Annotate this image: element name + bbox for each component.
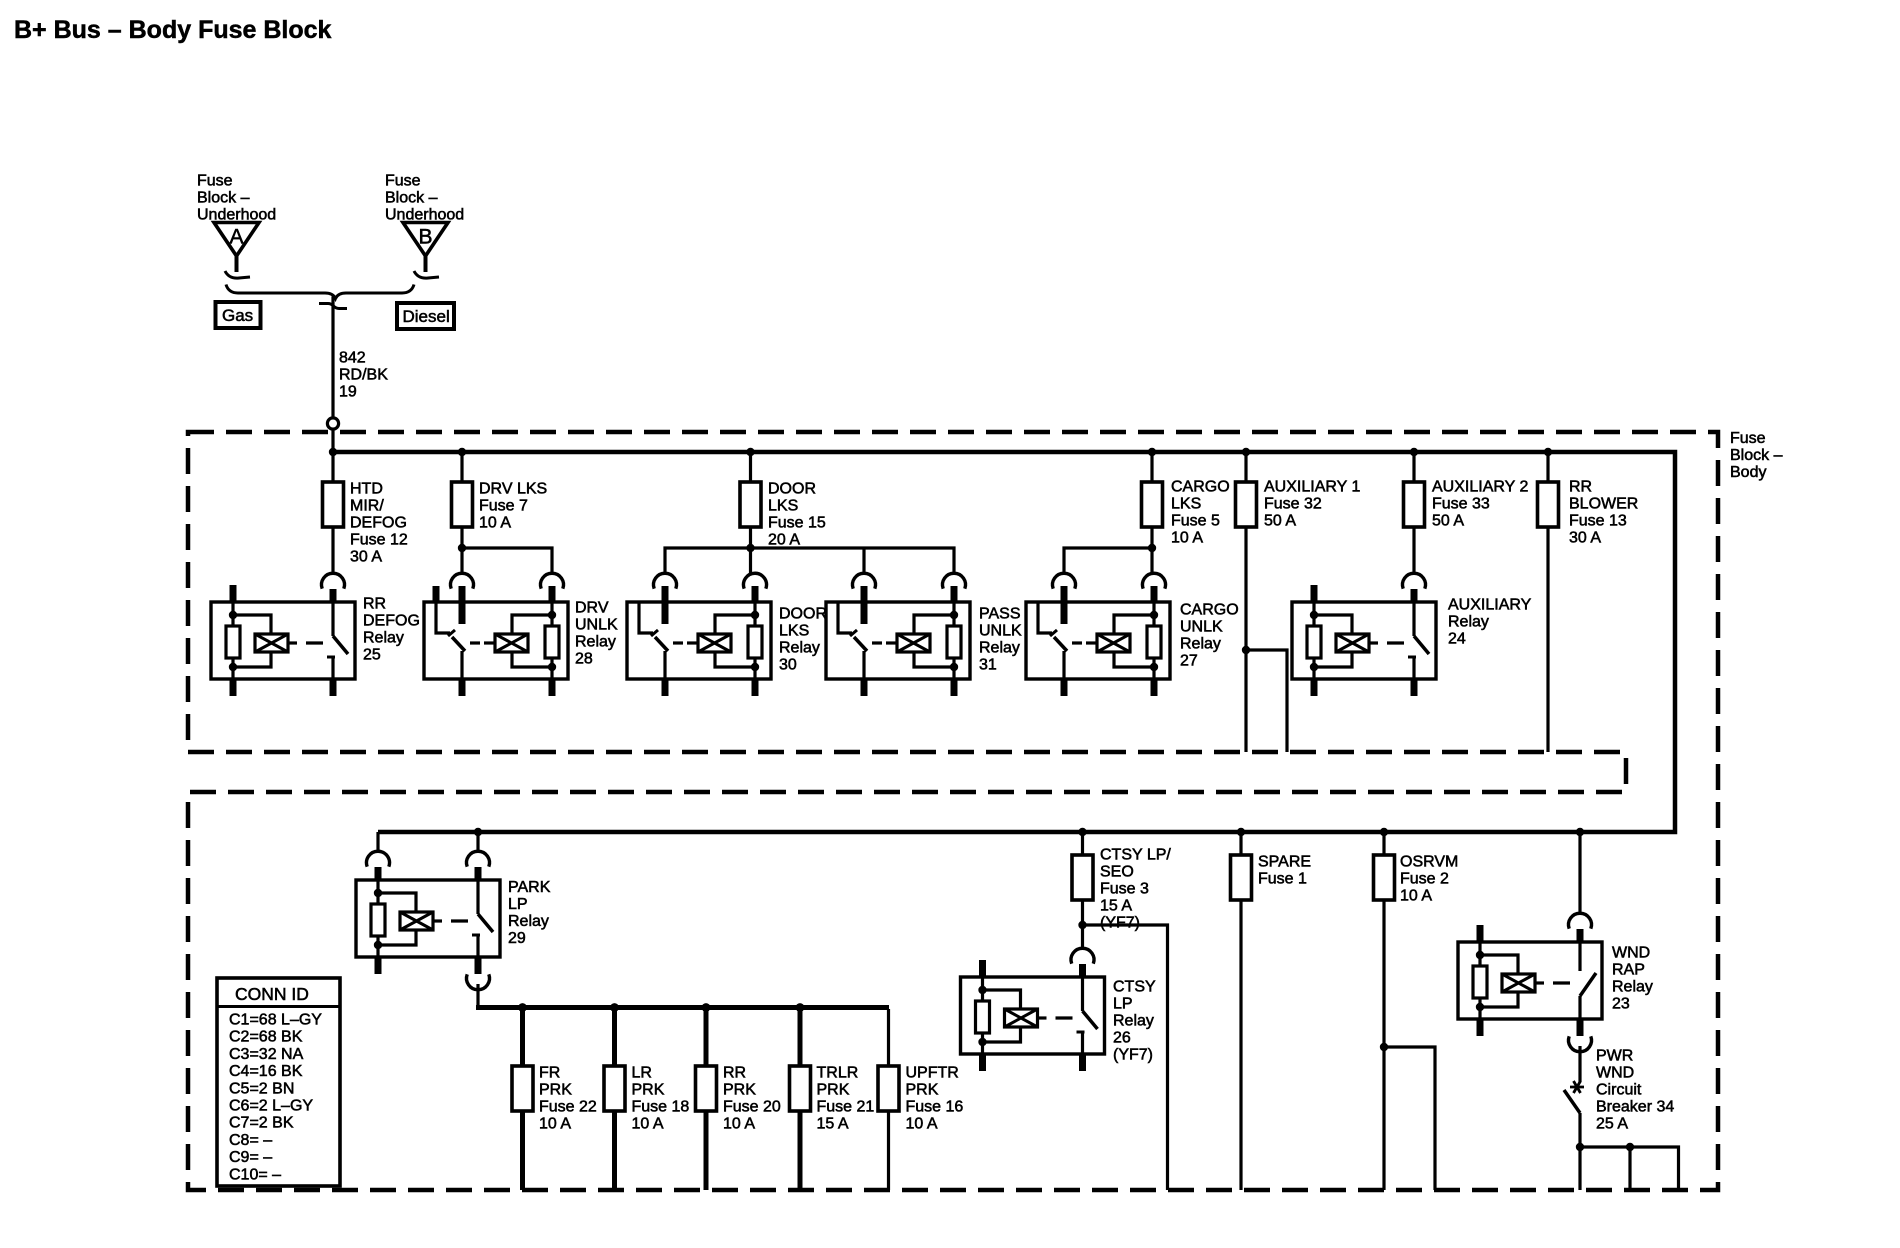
- wire: fuse 13 down to lower block: [1546, 527, 1549, 752]
- bus junction nodes (upper): [329, 448, 1552, 456]
- relay 29 PARK LP box: [356, 880, 500, 957]
- lower bus junction nodes: [474, 828, 1584, 836]
- svg-text:LKS: LKS: [768, 498, 798, 515]
- svg-text:10 A: 10 A: [1171, 530, 1203, 547]
- relay 30 DOOR LKS box: [627, 602, 771, 679]
- svg-text:UPFTR: UPFTR: [906, 1065, 959, 1082]
- connector arc below relay 23 switch: [1569, 1036, 1592, 1051]
- connector arcs at relay 27: [1053, 573, 1166, 588]
- svg-text:MIR/: MIR/: [350, 498, 384, 515]
- svg-text:Fuse 7: Fuse 7: [479, 498, 528, 515]
- svg-text:PRK: PRK: [632, 1082, 665, 1099]
- svg-text:LP: LP: [1113, 996, 1133, 1013]
- svg-text:PRK: PRK: [906, 1082, 939, 1099]
- connector arc at relay 26 switch: [1071, 948, 1094, 977]
- wire: bus to PARK LP relay switch: [476, 832, 479, 852]
- connector arc below relay 29 switch: [467, 974, 490, 989]
- svg-text:Relay: Relay: [979, 640, 1020, 657]
- relay 24 AUXILIARY coil circuit: [1307, 585, 1404, 696]
- fuse F2 OSRVM 10A: [1374, 855, 1395, 900]
- fuse F20 label: [723, 1065, 781, 1133]
- relay 26 CTSY LP box: [961, 977, 1105, 1054]
- connector arc at relay 23 switch: [1569, 913, 1592, 942]
- connector B stem and hook: [414, 254, 439, 278]
- relay 24 label: [1448, 597, 1532, 648]
- connector A stem and hook: [225, 254, 250, 278]
- relay 26 CTSY LP coil circuit: [976, 960, 1073, 1071]
- fuse F16 label: [906, 1065, 964, 1133]
- svg-text:25 A: 25 A: [1596, 1116, 1628, 1133]
- svg-text:Gas: Gas: [222, 306, 253, 325]
- svg-text:20 A: 20 A: [768, 532, 800, 549]
- svg-text:50 A: 50 A: [1432, 513, 1464, 530]
- svg-text:Fuse 21: Fuse 21: [817, 1099, 875, 1116]
- junction at fuse 15 output: [746, 544, 754, 552]
- svg-text:C2=68 BK: C2=68 BK: [229, 1029, 303, 1046]
- relay 24 AUXILIARY box: [1292, 602, 1436, 679]
- svg-text:25: 25: [363, 647, 381, 664]
- svg-text:PASS: PASS: [979, 606, 1021, 623]
- wire: bus to CARGO LKS fuse 5: [1150, 452, 1153, 483]
- fuse F1 SPARE: [1231, 855, 1252, 900]
- connector arcs at relay 29: [367, 851, 490, 880]
- wire label 842 RD/BK 19: [339, 350, 388, 401]
- label Fuse Block - Body: [1730, 430, 1783, 481]
- wire: fuse 7 to relay 28 coil: [462, 548, 552, 573]
- junction on OSRVM wire: [1380, 1043, 1388, 1051]
- fuse F22 FR PRK 10A: [512, 1066, 533, 1111]
- svg-text:Fuse 5: Fuse 5: [1171, 513, 1220, 530]
- svg-text:31: 31: [979, 657, 997, 674]
- relay 23 label: [1612, 945, 1653, 1013]
- connector ring at fuse block boundary: [327, 418, 338, 429]
- fuse F21 TRLR PRK 15A: [790, 1066, 811, 1111]
- junction at fuse 7 output: [458, 544, 466, 552]
- svg-text:Fuse 1: Fuse 1: [1258, 871, 1307, 888]
- svg-text:Fuse 2: Fuse 2: [1400, 871, 1449, 888]
- svg-text:B: B: [418, 226, 432, 249]
- svg-text:(YF7): (YF7): [1113, 1047, 1153, 1064]
- wire: bus to RR BLOWER fuse 13: [1546, 452, 1549, 483]
- svg-text:DEFOG: DEFOG: [350, 515, 407, 532]
- relay 24 AUXILIARY switch: [1408, 602, 1429, 696]
- fuse F2 label: [1400, 854, 1458, 905]
- svg-text:15 A: 15 A: [1100, 898, 1132, 915]
- svg-text:Block –: Block –: [197, 190, 250, 207]
- relay 30 DOOR LKS coil circuit: [673, 586, 762, 696]
- fuse F7 label: [479, 481, 547, 532]
- svg-text:28: 28: [575, 651, 593, 668]
- svg-text:50 A: 50 A: [1264, 513, 1296, 530]
- wire into fuse block: [331, 430, 334, 453]
- svg-text:Relay: Relay: [1113, 1013, 1154, 1030]
- relay 30 label: [779, 606, 827, 674]
- svg-text:AUXILIARY: AUXILIARY: [1448, 597, 1532, 614]
- wire: fuse 5 feed to relay 27: [1064, 527, 1152, 573]
- splice hook above wire 842: [319, 304, 347, 309]
- svg-text:RD/BK: RD/BK: [339, 367, 388, 384]
- wire: bus to AUXILIARY 2 fuse 33: [1412, 452, 1415, 483]
- wire: fuse 32 down to lower block: [1244, 527, 1247, 752]
- svg-text:DRV: DRV: [575, 600, 609, 617]
- svg-text:HTD: HTD: [350, 481, 383, 498]
- wire: relay 29 output down to park lamp fuse bus: [476, 984, 479, 1006]
- svg-text:842: 842: [339, 350, 366, 367]
- svg-text:24: 24: [1448, 631, 1466, 648]
- relay 23 WND RAP coil circuit: [1473, 925, 1570, 1036]
- circuit breaker 34 PWR WND 25A: [1564, 1081, 1584, 1147]
- svg-text:Relay: Relay: [508, 913, 549, 930]
- relay 29 PARK LP coil circuit: [371, 880, 468, 974]
- circuit breaker 34 label: [1596, 1048, 1674, 1133]
- relay 31 PASS UNLK switch: [838, 586, 867, 696]
- fuse F12 label: [350, 481, 408, 566]
- svg-text:WND: WND: [1612, 945, 1650, 962]
- fuse F32 AUXILIARY 1 50A: [1236, 482, 1257, 527]
- svg-text:DRV LKS: DRV LKS: [479, 481, 547, 498]
- svg-text:CARGO: CARGO: [1180, 602, 1239, 619]
- svg-text:Relay: Relay: [1180, 636, 1221, 653]
- wire: bus to DRV LKS fuse 7: [460, 452, 463, 483]
- fuse F15 label: [768, 481, 826, 549]
- connector triangle B: [403, 223, 448, 257]
- svg-text:UNLK: UNLK: [575, 617, 618, 634]
- svg-text:C1=68 L–GY: C1=68 L–GY: [229, 1012, 322, 1029]
- svg-text:Relay: Relay: [575, 634, 616, 651]
- wire: fuse 1 to block edge: [1239, 900, 1242, 1190]
- wire: fuse 7 to relay 28 switch: [460, 527, 463, 573]
- junctions below circuit breaker: [1576, 1143, 1634, 1151]
- svg-text:Fuse: Fuse: [197, 173, 233, 190]
- relay 25 RR DEFOG box: [211, 602, 355, 679]
- relay 23 WND RAP box: [1458, 942, 1602, 1019]
- wire: LR PRK drop: [612, 1008, 617, 1191]
- svg-text:10 A: 10 A: [539, 1116, 571, 1133]
- relay 27 CARGO UNLK box: [1026, 602, 1170, 679]
- svg-text:LP: LP: [508, 896, 528, 913]
- svg-text:UNLK: UNLK: [1180, 619, 1223, 636]
- wire: bus to WND RAP relay: [1578, 832, 1581, 913]
- svg-text:SEO: SEO: [1100, 864, 1134, 881]
- svg-text:30 A: 30 A: [350, 549, 382, 566]
- svg-text:LR: LR: [632, 1065, 652, 1082]
- connector arcs at relay 31: [852, 573, 965, 588]
- svg-text:Fuse 12: Fuse 12: [350, 532, 408, 549]
- wire: bus to SPARE fuse 1: [1239, 832, 1242, 856]
- svg-text:Fuse 13: Fuse 13: [1569, 513, 1627, 530]
- connector A label Fuse Block - Underhood: [197, 173, 276, 224]
- svg-text:TRLR: TRLR: [817, 1065, 859, 1082]
- svg-text:C9= –: C9= –: [229, 1149, 272, 1166]
- fuse F3 label: [1100, 847, 1171, 932]
- svg-text:B+ Bus – Body Fuse Block: B+ Bus – Body Fuse Block: [14, 16, 332, 44]
- svg-text:Relay: Relay: [363, 630, 404, 647]
- connector B label Fuse Block - Underhood: [385, 173, 464, 224]
- fuse F13 label: [1569, 479, 1638, 547]
- svg-text:CTSY: CTSY: [1113, 979, 1156, 996]
- svg-text:AUXILIARY 2: AUXILIARY 2: [1432, 479, 1528, 496]
- wire 842 RD/BK: [331, 297, 334, 419]
- wire: FR PRK drop: [520, 1008, 525, 1191]
- svg-text:Fuse 20: Fuse 20: [723, 1099, 781, 1116]
- svg-text:29: 29: [508, 930, 526, 947]
- svg-text:Fuse 16: Fuse 16: [906, 1099, 964, 1116]
- svg-text:10 A: 10 A: [1400, 888, 1432, 905]
- CONN ID table: [217, 978, 340, 1186]
- svg-text:SPARE: SPARE: [1258, 854, 1311, 871]
- svg-text:A: A: [229, 226, 243, 249]
- svg-text:Relay: Relay: [779, 640, 820, 657]
- svg-text:Fuse 33: Fuse 33: [1432, 496, 1490, 513]
- svg-text:LKS: LKS: [779, 623, 809, 640]
- svg-text:CARGO: CARGO: [1171, 479, 1230, 496]
- branch wire from fuse 3 to block edge: [1083, 925, 1168, 1190]
- relay 27 label: [1180, 602, 1239, 670]
- branch wire from OSRVM to block edge: [1384, 1047, 1435, 1190]
- wire: bus to AUXILIARY 1 fuse 32: [1244, 452, 1247, 483]
- relay 25 label: [363, 596, 420, 664]
- junction below fuse 3: [1078, 921, 1086, 929]
- svg-text:C4=16 BK: C4=16 BK: [229, 1063, 303, 1080]
- svg-text:Fuse 32: Fuse 32: [1264, 496, 1322, 513]
- Fuse Block - Body dashed boundary: [188, 432, 1718, 1190]
- svg-text:Diesel: Diesel: [403, 307, 450, 326]
- relay 27 CARGO UNLK switch: [1038, 586, 1067, 696]
- wire: bus to HTD MIR/DEFOG fuse 12: [331, 452, 334, 483]
- connector arc at relay 25 switch: [322, 573, 345, 602]
- svg-text:WND: WND: [1596, 1065, 1634, 1082]
- svg-text:Relay: Relay: [1612, 979, 1653, 996]
- svg-text:(YF7): (YF7): [1100, 915, 1140, 932]
- svg-text:LKS: LKS: [1171, 496, 1201, 513]
- wire: bus to CTSY LP/SEO fuse 3: [1081, 832, 1084, 856]
- svg-text:PRK: PRK: [539, 1082, 572, 1099]
- fuse F5 CARGO LKS 10A: [1142, 482, 1163, 527]
- svg-text:10 A: 10 A: [723, 1116, 755, 1133]
- svg-text:Body: Body: [1730, 464, 1766, 481]
- svg-text:Fuse 18: Fuse 18: [632, 1099, 690, 1116]
- relay 29 label: [508, 879, 551, 947]
- fuse F18 label: [632, 1065, 690, 1133]
- wire: bus to PARK LP relay coil: [376, 832, 379, 852]
- relay 28 DRV UNLK coil circuit: [470, 586, 559, 696]
- svg-text:10 A: 10 A: [632, 1116, 664, 1133]
- svg-text:Fuse 22: Fuse 22: [539, 1099, 597, 1116]
- svg-text:CONN ID: CONN ID: [235, 984, 309, 1004]
- fuse F33 AUXILIARY 2 50A: [1404, 482, 1425, 527]
- svg-text:Fuse 15: Fuse 15: [768, 515, 826, 532]
- svg-text:19: 19: [339, 384, 357, 401]
- wire: fuse 3 to relay 26: [1081, 900, 1084, 948]
- relay 31 PASS UNLK box: [826, 602, 970, 679]
- relay 27 CARGO UNLK coil circuit: [1072, 586, 1161, 696]
- svg-text:BLOWER: BLOWER: [1569, 496, 1638, 513]
- wire: bus to DOOR LKS fuse 15: [749, 452, 752, 483]
- fuse F22 label: [539, 1065, 597, 1133]
- wire: RR PRK drop: [704, 1008, 709, 1191]
- svg-text:23: 23: [1612, 996, 1630, 1013]
- svg-text:Circuit: Circuit: [1596, 1082, 1642, 1099]
- fuse F5 label: [1171, 479, 1230, 547]
- relay 31 label: [979, 606, 1022, 674]
- connector arcs at relay 28: [451, 573, 564, 588]
- connector arc at relay 24 switch: [1403, 573, 1426, 602]
- svg-text:RR: RR: [1569, 479, 1592, 496]
- wires below circuit breaker: [1580, 1147, 1679, 1190]
- relay 26 label: [1113, 979, 1156, 1064]
- wire: fuse 2 to block edge: [1382, 900, 1385, 1190]
- relay 31 PASS UNLK coil circuit: [872, 586, 961, 696]
- svg-text:Block –: Block –: [1730, 447, 1783, 464]
- svg-text:DOOR: DOOR: [779, 606, 827, 623]
- relay 26 CTSY LP switch: [1077, 977, 1098, 1071]
- junction at fuse 5 output: [1148, 544, 1156, 552]
- relay 28 DRV UNLK switch: [436, 586, 465, 696]
- fuse F16 UPFTR PRK 10A: [878, 1066, 899, 1111]
- svg-text:Fuse 3: Fuse 3: [1100, 881, 1149, 898]
- svg-text:PRK: PRK: [723, 1082, 756, 1099]
- wire: fuse 33 to relay 24: [1412, 527, 1415, 573]
- relay 23 WND RAP switch: [1580, 942, 1596, 1036]
- connector arcs at relay 30: [654, 573, 767, 588]
- fuse F1 label: [1258, 854, 1311, 888]
- svg-text:PRK: PRK: [817, 1082, 850, 1099]
- svg-text:RR: RR: [723, 1065, 746, 1082]
- wire: fuse 15 feed to relays 30 and 31: [665, 527, 954, 573]
- svg-text:DOOR: DOOR: [768, 481, 816, 498]
- svg-text:10 A: 10 A: [906, 1116, 938, 1133]
- fuse F18 LR PRK 10A: [604, 1066, 625, 1111]
- svg-text:26: 26: [1113, 1030, 1131, 1047]
- fuse F12 HTD MIR/DEFOG 30A: [323, 482, 344, 527]
- svg-text:30 A: 30 A: [1569, 530, 1601, 547]
- relay 29 PARK LP switch: [472, 880, 493, 974]
- svg-text:30: 30: [779, 657, 797, 674]
- svg-text:PWR: PWR: [1596, 1048, 1633, 1065]
- svg-text:Relay: Relay: [1448, 614, 1489, 631]
- svg-text:CTSY LP/: CTSY LP/: [1100, 847, 1171, 864]
- svg-text:C3=32 NA: C3=32 NA: [229, 1046, 304, 1063]
- svg-text:C8= –: C8= –: [229, 1132, 272, 1149]
- fuse F21 label: [817, 1065, 875, 1133]
- relay 25 RR DEFOG switch: [327, 602, 348, 696]
- svg-text:C6=2 L–GY: C6=2 L–GY: [229, 1098, 313, 1115]
- relay 25 RR DEFOG coil circuit: [226, 585, 323, 696]
- fuse F32 label: [1264, 479, 1360, 530]
- svg-text:15 A: 15 A: [817, 1116, 849, 1133]
- svg-text:Breaker 34: Breaker 34: [1596, 1099, 1674, 1116]
- fuse F33 label: [1432, 479, 1528, 530]
- fuse F20 RR PRK 10A: [696, 1066, 717, 1111]
- relay 30 DOOR LKS switch: [639, 586, 668, 696]
- wire: TRLR PRK drop: [798, 1008, 803, 1191]
- svg-text:Fuse: Fuse: [385, 173, 421, 190]
- relay 28 DRV UNLK box: [424, 602, 568, 679]
- wire: UPFTR PRK drop: [887, 1009, 890, 1190]
- svg-text:AUXILIARY 1: AUXILIARY 1: [1264, 479, 1360, 496]
- fuse F7 DRV LKS 10A: [452, 482, 473, 527]
- svg-text:C7=2 BK: C7=2 BK: [229, 1115, 294, 1132]
- svg-text:27: 27: [1180, 653, 1198, 670]
- wire: bus to OSRVM fuse 2: [1382, 832, 1385, 856]
- svg-text:FR: FR: [539, 1065, 560, 1082]
- fuse F3 CTSY LP/SEO 15A: [1072, 855, 1093, 900]
- park lamp bus junction nodes: [518, 1003, 804, 1012]
- svg-text:RAP: RAP: [1612, 962, 1645, 979]
- title: [14, 16, 332, 44]
- wire: fuse 12 to relay 25: [331, 527, 334, 573]
- junction on auxiliary 1 wire: [1242, 646, 1250, 654]
- branch wire to lower block: [1246, 650, 1287, 752]
- svg-text:C5=2 BN: C5=2 BN: [229, 1080, 294, 1097]
- svg-text:PARK: PARK: [508, 879, 551, 896]
- svg-text:Fuse: Fuse: [1730, 430, 1766, 447]
- svg-text:10 A: 10 A: [479, 515, 511, 532]
- fuse F15 DOOR LKS 20A: [740, 482, 761, 527]
- B+ bus wiring (upper bus, right riser, lower bus): [333, 452, 1675, 832]
- svg-text:C10= –: C10= –: [229, 1166, 281, 1183]
- connector triangle A: [214, 223, 259, 257]
- relay 28 label: [575, 600, 618, 668]
- brace joining A and B: [226, 285, 414, 299]
- svg-text:RR: RR: [363, 596, 386, 613]
- svg-text:UNLK: UNLK: [979, 623, 1022, 640]
- svg-text:DEFOG: DEFOG: [363, 613, 420, 630]
- park lamp fuse bus: [476, 1005, 889, 1010]
- Diesel box: [397, 303, 454, 329]
- Gas box: [216, 302, 261, 328]
- svg-text:OSRVM: OSRVM: [1400, 854, 1458, 871]
- svg-text:Block –: Block –: [385, 190, 438, 207]
- fuse F13 RR BLOWER 30A: [1538, 482, 1559, 527]
- wire: relay 23 output to circuit breaker: [1578, 1046, 1581, 1082]
